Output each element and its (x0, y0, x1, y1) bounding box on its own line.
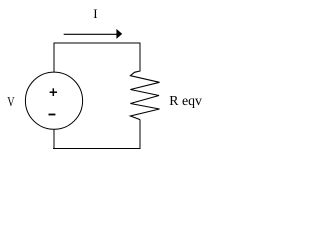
wire: right vertical from top rail down to resistor top (139, 43, 141, 72)
wire: bottom rail (53, 148, 141, 150)
voltage source V1 circle (25, 72, 82, 129)
wire: top rail from node A (top of source) to node B (top of resistor) (54, 42, 141, 44)
svg-text:I: I (93, 6, 97, 21)
wire: left vertical from top rail down to voltage source top (53, 43, 55, 73)
minus sign inside source (49, 114, 56, 116)
svg-text:V: V (7, 94, 15, 109)
plus sign inside source (50, 88, 57, 96)
wire: left vertical from voltage source bottom down to bottom rail (53, 129, 55, 149)
svg-text:R eqv: R eqv (169, 93, 202, 108)
wire: right vertical from resistor bottom down to bottom rail (139, 120, 141, 150)
resistor R eqv zigzag (130, 71, 159, 120)
current arrow I (64, 29, 122, 39)
